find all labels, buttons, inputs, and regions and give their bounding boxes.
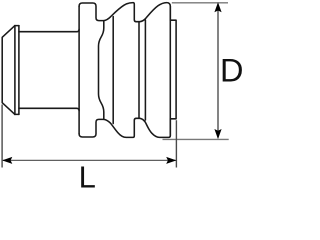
svg-text:L: L: [79, 160, 96, 194]
svg-text:D: D: [220, 53, 243, 89]
